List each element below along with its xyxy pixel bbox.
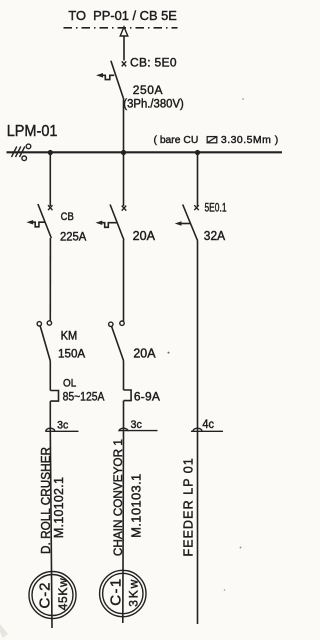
contactor (branch 2) moving contact circle <box>109 322 113 326</box>
contactor KM blade <box>40 326 50 361</box>
circuit breaker 20A blade <box>110 205 124 241</box>
cable marker 3c (branch 1) <box>46 428 55 431</box>
contactor KM moving contact circle <box>37 322 41 326</box>
speckle <box>168 352 170 354</box>
contact mark x at CB 5E0 <box>122 61 127 66</box>
motor C-2 outer circle <box>29 572 76 619</box>
overload relay (branch 2) <box>124 390 132 401</box>
scan smudge bottom-left <box>0 624 8 638</box>
cable marker 4c (branch 3) <box>193 428 202 431</box>
wire: branch 2 CB to contactor <box>123 240 125 321</box>
svg-text:4c: 4c <box>202 419 214 431</box>
link circle lower <box>22 156 27 161</box>
circuit breaker CB 225A blade <box>38 204 51 238</box>
node: bus tap 1 <box>48 150 53 155</box>
wire: branch 1 run to motor <box>50 431 52 628</box>
speckle <box>224 589 226 591</box>
CB:5E0 operator arrow (notched) <box>103 75 115 79</box>
svg-text:LPM-01: LPM-01 <box>7 123 58 140</box>
svg-text:5E0.1: 5E0.1 <box>205 201 227 215</box>
CB 20A operator arrow (notched) <box>102 223 117 228</box>
contactor (branch 2) fixed contact circle <box>120 321 124 325</box>
svg-text:C-1: C-1 <box>108 579 125 606</box>
wire: incoming drop to CB <box>123 36 125 61</box>
wire: branch 2 drop from bus <box>123 153 125 207</box>
link circle upper <box>26 144 31 149</box>
wire: branch 1 CB to contactor <box>49 238 51 321</box>
wire: KM to OL <box>49 361 51 391</box>
busbar LPM-01 <box>7 151 283 153</box>
svg-text:CHAIN CONVEYOR 1: CHAIN CONVEYOR 1 <box>111 439 125 556</box>
svg-text:CB: CB <box>61 211 74 223</box>
svg-text:KM: KM <box>61 331 78 343</box>
contact mark x (branch 3 CB) <box>194 205 199 210</box>
svg-text:3c: 3c <box>57 419 69 431</box>
wire: OL to cable marker (branch 1) <box>49 401 51 431</box>
incoming feeder boundary (dash-dot line) <box>64 27 178 29</box>
svg-text:45Kw: 45Kw <box>56 578 70 610</box>
svg-text:6-9A: 6-9A <box>134 390 160 404</box>
contactor KM fixed contact circle <box>47 321 51 325</box>
arrowhead toward PP-01 <box>120 27 128 36</box>
wire: branch 3 feeder run <box>197 241 199 625</box>
speckle <box>240 547 242 549</box>
svg-text:OL: OL <box>63 378 76 390</box>
speckle <box>242 98 244 100</box>
wire: branch 1 drop from bus <box>49 153 51 207</box>
wire: branch 2 contactor to OL <box>123 361 125 391</box>
circuit breaker 32A blade <box>183 205 198 241</box>
ground hatching at bus end <box>12 147 25 158</box>
svg-text:3Kw: 3Kw <box>127 579 141 606</box>
svg-text:85~125A: 85~125A <box>63 390 105 404</box>
svg-text:( bare CU: ( bare CU <box>154 134 199 146</box>
motor C-1 outer circle <box>100 570 146 616</box>
node: bus tap 3 <box>195 150 200 155</box>
overload relay OL (branch 1) <box>50 391 58 402</box>
svg-text:250A: 250A <box>133 83 163 97</box>
cable marker 3c (branch 2) <box>119 428 128 431</box>
CB 225A operator arrow (notched) <box>33 222 45 227</box>
svg-text:32A: 32A <box>204 229 226 243</box>
CB 32A operator arrow <box>181 223 191 225</box>
svg-text:225A: 225A <box>60 230 86 244</box>
wire: branch 3 drop from bus <box>197 153 199 207</box>
svg-text:20A: 20A <box>133 347 156 361</box>
contact mark x (branch 1 CB) <box>48 205 53 210</box>
svg-text:M.10103.1: M.10103.1 <box>129 474 144 538</box>
contactor (branch 2) blade <box>112 327 124 361</box>
conductor cross-section symbol <box>207 137 217 143</box>
svg-text:TO PP-01 / CB 5E: TO PP-01 / CB 5E <box>68 8 177 23</box>
svg-text:M.10102.1: M.10102.1 <box>52 477 66 538</box>
node: bus tap 2 <box>121 150 126 155</box>
circuit breaker CB:5E0 blade <box>111 61 124 100</box>
svg-text:3.30.5Mm ): 3.30.5Mm ) <box>221 134 278 146</box>
svg-text:CB: 5E0: CB: 5E0 <box>130 56 177 70</box>
wire: CB 5E0 to busbar <box>123 100 125 153</box>
svg-text:C-2: C-2 <box>37 583 54 609</box>
svg-text:3c: 3c <box>131 419 143 431</box>
wire: branch 2 run to motor <box>122 431 125 623</box>
motor C-1 inner circle <box>103 573 143 613</box>
svg-text:150A: 150A <box>58 347 85 361</box>
svg-text:20A: 20A <box>133 229 156 243</box>
svg-text:(3Ph./380V): (3Ph./380V) <box>123 98 184 110</box>
motor C-2 inner circle <box>32 575 73 616</box>
svg-text:D. ROLL CRUSHER: D. ROLL CRUSHER <box>38 447 53 554</box>
wire: branch 2 OL to cable marker <box>123 401 125 432</box>
contact mark x (branch 2 CB) <box>122 206 127 211</box>
svg-text:FEEDER LP 01: FEEDER LP 01 <box>181 458 195 557</box>
